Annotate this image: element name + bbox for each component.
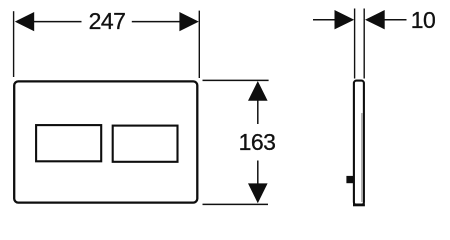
extension line left (247 dim) (13, 11, 15, 77)
left button (36, 125, 101, 161)
arrow pointing left (10) (365, 10, 385, 29)
leader line left (10 dim) (313, 19, 336, 21)
arrow up (163) (248, 81, 268, 101)
dimension label 247 (89, 8, 126, 34)
arrow pointing right (10) (335, 10, 355, 29)
arrow right (247) (179, 12, 198, 31)
extension line right (247 dim) (198, 11, 200, 78)
leader line right (10 dim) (384, 19, 407, 21)
extension line top (163 dim) (203, 79, 269, 81)
dimension label 10 (411, 7, 436, 33)
right button (113, 126, 178, 162)
svg-text:163: 163 (239, 129, 276, 155)
side view bottom thick edge (353, 203, 365, 206)
arrow down (163) (248, 183, 268, 203)
dimension line 163 upper segment (257, 100, 259, 124)
extension line bottom (163 dim) (203, 203, 269, 205)
arrow left (247) (15, 12, 34, 31)
dimension label 163 (239, 129, 276, 155)
side view profile outline (354, 81, 364, 205)
svg-text:247: 247 (89, 8, 126, 34)
svg-text:10: 10 (411, 7, 436, 33)
side view clip bump (346, 176, 353, 183)
extension line right (10 dim) (363, 9, 365, 79)
front view plate outline (14, 81, 197, 202)
side view inner edge line (361, 113, 363, 202)
extension line left (10 dim) (354, 9, 356, 79)
dimension line 247 right segment (132, 21, 181, 23)
dimension line 247 left segment (32, 21, 82, 23)
dimension line 163 lower segment (257, 161, 259, 185)
